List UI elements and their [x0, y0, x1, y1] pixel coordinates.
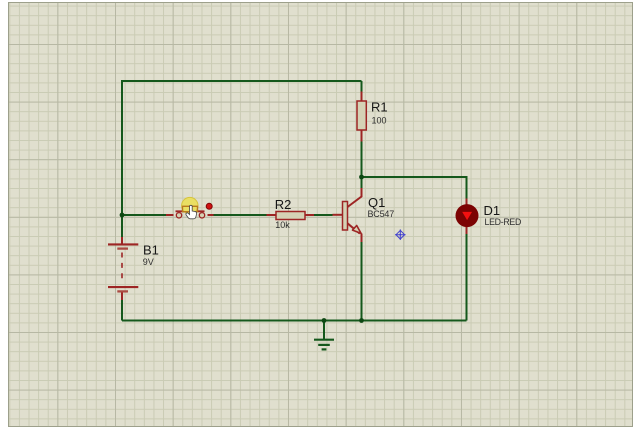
wire ground stem	[323, 321, 325, 340]
svg-text:100: 100	[372, 115, 387, 125]
svg-text:D1: D1	[484, 203, 501, 218]
label R2	[275, 197, 292, 212]
value BC547	[368, 209, 395, 219]
wire R2 to base	[314, 214, 333, 216]
label R1	[371, 100, 388, 115]
svg-text:10k: 10k	[275, 220, 290, 230]
wire LED bottom	[466, 234, 468, 321]
node battery junction	[120, 213, 125, 218]
svg-text:R2: R2	[275, 197, 292, 212]
svg-text:R1: R1	[371, 100, 388, 115]
wire R1 bottom to collector node	[361, 142, 363, 189]
node ground junction	[322, 318, 327, 323]
node collector junction	[359, 175, 364, 180]
svg-text:B1: B1	[143, 243, 159, 258]
wire emitter down	[361, 242, 363, 321]
wire R1 top stub link	[361, 81, 363, 92]
hand cursor	[186, 205, 197, 218]
ground	[314, 340, 334, 350]
value 9V	[143, 257, 154, 267]
button state indicator dot	[206, 203, 212, 209]
svg-text:Q1: Q1	[368, 195, 385, 210]
svg-text:BC547: BC547	[368, 209, 395, 219]
value 100	[372, 115, 387, 125]
value 10k	[275, 220, 290, 230]
push button	[166, 211, 214, 218]
resistor R1	[357, 92, 366, 142]
svg-text:9V: 9V	[143, 257, 154, 267]
label D1	[484, 203, 501, 218]
node emitter junction	[359, 318, 364, 323]
label B1	[143, 243, 159, 258]
wire top rail	[122, 80, 362, 82]
button actuator highlight	[182, 197, 198, 213]
wire battery bottom link	[121, 300, 123, 321]
resistor R2	[267, 212, 315, 220]
label Q1	[368, 195, 385, 210]
svg-text:LED-RED: LED-RED	[485, 217, 522, 227]
battery B1	[108, 237, 138, 300]
wire button left link	[122, 214, 166, 216]
wire bottom rail	[122, 320, 467, 322]
wire button to R2	[214, 214, 267, 216]
wire left rail	[121, 80, 123, 215]
value LED-RED	[485, 217, 522, 227]
wire collector node to LED	[362, 177, 467, 199]
LED D1	[456, 199, 479, 235]
transistor Q1	[333, 188, 362, 242]
wire battery top link	[121, 215, 123, 237]
origin marker	[395, 229, 406, 240]
